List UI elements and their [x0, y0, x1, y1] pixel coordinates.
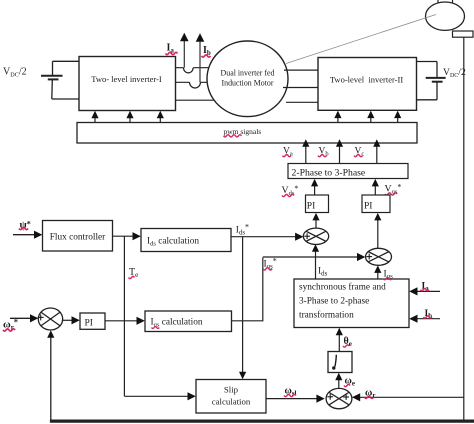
svg-text:Vds*: Vds* — [282, 184, 299, 197]
wire Vb to pwm bar — [336, 139, 343, 163]
wire omega_sl slip to S3 — [266, 395, 325, 403]
label psi* flux reference — [19, 220, 31, 232]
wire Va to pwm bar — [302, 139, 309, 163]
svg-text:Two-level inverter-II: Two-level inverter-II — [330, 75, 404, 85]
svg-text:Two- level inverter-I: Two- level inverter-I — [91, 74, 162, 84]
wire: motor to inverter-II phase 3 — [286, 101, 318, 103]
summing junction S2 (Iqs error) — [366, 248, 392, 265]
label VDC/2 right — [443, 67, 466, 79]
svg-text:transformation: transformation — [299, 310, 354, 321]
wire: motor to inverter-II phase 2 — [283, 87, 318, 89]
svg-text:Slip: Slip — [224, 385, 239, 395]
label Ib top — [202, 45, 211, 57]
wire omega_r into S3 from tach — [352, 393, 464, 401]
label Iqs* — [263, 257, 277, 271]
sensor lead Ib with arrow — [196, 33, 205, 82]
wire: inverter-I to motor phase 1 — [176, 67, 251, 69]
plus sign at S0 — [38, 314, 44, 320]
wire: gate drive to inverter-II a — [334, 111, 341, 123]
wire omega_r* into speed summing junction — [10, 314, 38, 322]
svg-text:Flux controller: Flux controller — [50, 233, 106, 243]
label Ib right — [424, 309, 433, 320]
svg-text:PI: PI — [364, 202, 372, 212]
svg-text:Induction Motor: Induction Motor — [222, 79, 274, 88]
svg-text:synchronous frame and: synchronous frame and — [299, 282, 386, 293]
label Iqs — [383, 270, 393, 281]
svg-text:θe: θe — [344, 336, 352, 348]
plus sign right at S3 — [343, 394, 349, 400]
current sensor CT1 loop — [184, 68, 194, 73]
wire flux controller to Ids calculation — [113, 232, 141, 240]
motor M Dual inverter fed Induction Motor — [207, 41, 288, 117]
block: Ids calculation — [141, 229, 231, 252]
plus sign at S3 — [327, 394, 333, 400]
svg-text:Ids: Ids — [318, 267, 328, 278]
svg-text:2-Phase to 3-Phase: 2-Phase to 3-Phase — [292, 167, 366, 178]
label omega_r — [365, 388, 376, 400]
svg-text:Vqs*: Vqs* — [385, 183, 402, 196]
inverter box I2 Two-level inverter-II — [318, 58, 417, 111]
svg-text:3-Phase to 2-phase: 3-Phase to 2-phase — [299, 297, 369, 307]
label Ids — [318, 267, 328, 278]
tach top stub 1 — [437, 0, 439, 3]
wire: speed feedback up to S0 — [47, 330, 54, 421]
wire: inverter-I to motor phase 3 — [176, 99, 251, 101]
svg-text:calculation: calculation — [212, 397, 251, 407]
block PI speed — [80, 313, 105, 329]
wire summing1 to PI1 — [312, 213, 319, 228]
wire PI2 to 2-3 phase block — [372, 179, 379, 195]
label Va — [283, 147, 293, 158]
label VDC/2 left — [3, 67, 27, 79]
wire: motor to inverter-II phase 1 — [284, 69, 318, 71]
tachometer TG circle — [426, 2, 465, 30]
svg-text:Ids*: Ids* — [236, 223, 249, 237]
wire Te into slip calculation — [124, 392, 195, 400]
wire: speed feedback right vertical — [463, 37, 465, 421]
wire: speed feedback bottom bus — [50, 420, 474, 423]
sensor lead Ia with arrow — [180, 33, 189, 68]
label Vds* — [282, 184, 299, 197]
wire omega_e from S3 to integrator — [335, 373, 342, 389]
label Ids* — [236, 223, 249, 237]
shaft sensor link (thin line motor to tachometer) — [286, 15, 436, 64]
plus sign at S2 — [366, 254, 372, 260]
pwm signals bus bar — [77, 123, 417, 144]
wire: gate drive to inverter-I c — [157, 111, 164, 123]
block PI1 — [306, 195, 329, 213]
label theta_e — [343, 336, 352, 348]
wire Ids* branch down to slip calculation — [239, 237, 246, 380]
label Vb — [318, 147, 329, 158]
wire: gate drive to inverter-II b — [367, 111, 374, 123]
wire Vc to pwm bar — [373, 139, 380, 163]
current sensor CT2 loop — [190, 82, 201, 88]
battery B1 — [41, 61, 79, 99]
tach shaft block — [453, 31, 474, 37]
block: integrator J — [328, 352, 352, 373]
wire psi* into flux controller — [13, 231, 42, 239]
block: synchronous frame and 3-Phase to 2-phase transformation — [294, 279, 409, 328]
wire: inverter-I to motor phase 2 — [176, 81, 251, 83]
wire Ib into transformation — [409, 315, 440, 323]
wire: gate drive to inverter-I a — [91, 111, 98, 123]
wire Ia into transformation — [409, 287, 440, 295]
svg-text:Dual inverter fed: Dual inverter fed — [221, 69, 275, 78]
svg-text:PI: PI — [307, 202, 315, 212]
summing junction S0 (speed error) — [38, 308, 62, 330]
block: Slip calculation — [196, 380, 266, 414]
block PI2 — [362, 195, 390, 213]
summing junction S1 (Ids error) — [303, 228, 328, 244]
svg-text:VDC/2: VDC/2 — [3, 67, 27, 79]
wire: gate drive to inverter-II c — [394, 111, 401, 123]
svg-text:VDC/2: VDC/2 — [443, 67, 466, 79]
label omega_e — [344, 376, 355, 388]
block: Flux controller — [43, 221, 113, 252]
tach top stub 2 — [452, 0, 454, 3]
label Ia top — [166, 43, 178, 55]
wire Ids feedback to S1 — [312, 244, 319, 279]
wire theta_e from integrator to transformation — [336, 328, 343, 352]
block: 2-Phase to 3-Phase — [288, 164, 408, 179]
label omega_r* speed reference — [3, 317, 18, 332]
wire PI to Iqs calculation — [105, 317, 145, 325]
wire Iqs* out of Iqs calculation — [232, 258, 263, 321]
label Vqs* — [385, 183, 402, 196]
inverter box I1 Two- level inverter-I — [79, 57, 176, 111]
wire Te vertical branch — [123, 236, 125, 396]
battery B2 — [417, 62, 446, 100]
wire: gate drive to inverter-I b — [126, 111, 133, 123]
wire Iqs feedback to S2 — [374, 265, 381, 279]
wire Ids* to summing junction S1 — [231, 233, 303, 241]
label Vc — [354, 147, 364, 158]
plus sign at S1 — [304, 233, 310, 239]
label Te — [129, 267, 139, 279]
wire PI1 to 2-3 phase block — [311, 179, 318, 195]
label Ia right — [421, 282, 430, 293]
wire summing2 to PI2 — [374, 213, 381, 248]
wire Iqs* to summing junction S2 — [263, 253, 366, 261]
block: Iqs calculation — [145, 311, 232, 332]
svg-text:PI: PI — [85, 319, 93, 329]
label omega_sl — [284, 386, 297, 398]
summing junction S3 (omega_e) — [326, 388, 352, 408]
wire S0 to PI speed — [62, 316, 80, 324]
